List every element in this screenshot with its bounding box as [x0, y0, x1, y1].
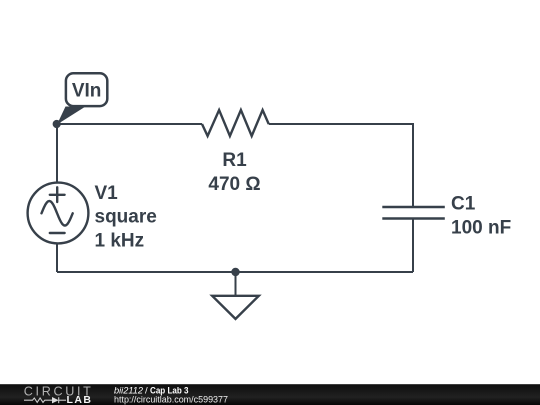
- wire left rail lower (V1 to bottom corner): [56, 243, 58, 272]
- wire top-right segment (R1 to corner): [269, 123, 413, 125]
- ground stub wire: [235, 272, 237, 295]
- CircuitLab logo resistor-diode squiggle: [24, 397, 66, 403]
- capacitor C1: [382, 207, 445, 219]
- svg-text:V1: V1: [95, 183, 119, 204]
- junction dot at ground: [231, 268, 239, 276]
- ground symbol: [212, 296, 259, 319]
- wire top-left segment (node VIn to R1): [57, 123, 202, 125]
- node VIn callout tail: [57, 107, 86, 125]
- wire bottom rail: [57, 271, 413, 273]
- svg-text:470 Ω: 470 Ω: [208, 174, 260, 195]
- node VIn label bubble: [66, 73, 107, 106]
- svg-text:VIn: VIn: [72, 81, 102, 102]
- footer bar: [0, 384, 540, 405]
- V1 value labels: [95, 183, 157, 251]
- footer url text line 2: [114, 395, 228, 405]
- CircuitLab logo diode triangle: [52, 397, 59, 403]
- svg-text:R1: R1: [222, 150, 247, 171]
- footer title text line 1: [114, 385, 189, 396]
- wire right rail upper (corner to C1): [412, 123, 414, 207]
- node VIn junction dot: [53, 120, 61, 128]
- node VIn label text: [72, 81, 102, 102]
- wire left rail upper (node VIn to V1): [56, 124, 58, 183]
- resistor R1: [202, 110, 269, 136]
- voltage source V1: [28, 183, 89, 244]
- svg-text:http://circuitlab.com/c599377: http://circuitlab.com/c599377: [114, 395, 228, 405]
- wire right rail lower (C1 to bottom corner): [412, 219, 414, 273]
- R1 value labels: [208, 150, 260, 195]
- CircuitLab logo wordmark CIRCUIT: [24, 385, 91, 399]
- CircuitLab logo wordmark LAB: [67, 394, 92, 405]
- svg-text:1 kHz: 1 kHz: [95, 230, 145, 251]
- C1 value labels: [451, 194, 511, 239]
- svg-text:100 nF: 100 nF: [451, 217, 511, 238]
- svg-text:LAB: LAB: [67, 394, 92, 405]
- svg-text:C1: C1: [451, 194, 476, 215]
- svg-text:square: square: [95, 207, 157, 228]
